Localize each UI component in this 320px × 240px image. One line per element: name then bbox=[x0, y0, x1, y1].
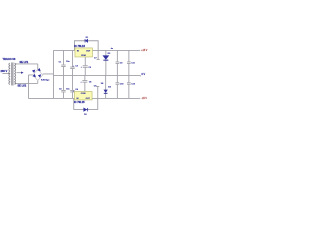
svg-text:-15 V: -15 V bbox=[141, 98, 147, 100]
svg-text:IC 78L15: IC 78L15 bbox=[74, 44, 85, 48]
svg-text:COM: COM bbox=[81, 93, 86, 95]
svg-text:COM: COM bbox=[81, 55, 86, 57]
svg-text:TRACO 03: TRACO 03 bbox=[2, 57, 15, 61]
svg-text:B-Bridge: B-Bridge bbox=[41, 80, 50, 82]
svg-text:dz: dz bbox=[111, 48, 113, 50]
svg-text:+15 V: +15 V bbox=[141, 50, 148, 52]
svg-text:230 V: 230 V bbox=[0, 69, 7, 73]
svg-text:IC 79L15: IC 79L15 bbox=[74, 100, 85, 104]
svg-text:SE LV2: SE LV2 bbox=[17, 84, 26, 88]
svg-text:SE LV1: SE LV1 bbox=[19, 60, 28, 64]
svg-text:0 V: 0 V bbox=[141, 73, 145, 76]
